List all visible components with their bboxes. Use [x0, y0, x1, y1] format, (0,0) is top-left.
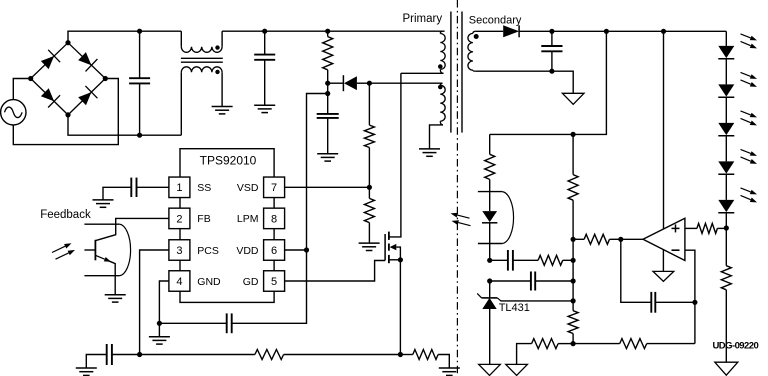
opto U2 LED body top stub: [478, 191, 502, 193]
svg-text:6: 6: [271, 245, 277, 257]
capacitor C2 bulk: [254, 29, 275, 106]
T1 secondary phase dot: [474, 34, 479, 39]
capacitor C10 integrator: [621, 239, 698, 312]
svg-text:3: 3: [176, 245, 182, 257]
resistor R11 inverting network: [573, 339, 695, 349]
resistor R4 PCS filter: [255, 350, 401, 360]
ground opto emitter: [105, 295, 126, 302]
svg-text:LPM: LPM: [237, 213, 259, 225]
resistor R9 divider lower: [568, 301, 578, 346]
svg-text:VDD: VDD: [236, 245, 259, 257]
resistor R3 VSD lower: [364, 185, 374, 243]
capacitor C4 VDD: [317, 83, 339, 154]
transformer T1 aux winding: [369, 83, 445, 149]
inductor L1 common-mode choke top winding: [181, 31, 222, 52]
inductor L1 core: [181, 58, 223, 62]
transformer T1 primary winding: [401, 31, 445, 73]
opto body bottom stub: [84, 275, 119, 277]
U1 pin 3 box: [169, 240, 190, 261]
diode bridge D1 lower-right: [68, 79, 105, 115]
U3 plus input marker: [672, 224, 680, 232]
LED D6: [718, 123, 734, 161]
label UDG-09220: [713, 340, 759, 351]
svg-text:UDG-09220: UDG-09220: [713, 340, 759, 351]
ground choke return: [212, 107, 233, 114]
wire top rail choke to transformer: [222, 30, 445, 32]
diode D2 output rectifier: [475, 25, 552, 37]
T1 aux phase dot: [438, 85, 443, 90]
diode bridge D1 upper-left: [31, 43, 68, 79]
ground C5: [93, 200, 114, 207]
wire PCS pin3: [137, 250, 169, 357]
light arrows into U2: [52, 243, 75, 259]
label Secondary: [469, 14, 522, 26]
U2 collector to FB pin2: [96, 218, 169, 240]
ground U1 GND: [149, 337, 170, 344]
label Feedback: [40, 209, 91, 221]
wire secondary output rail: [552, 29, 726, 34]
transformer T1 secondary winding: [468, 31, 475, 71]
node VDD supply junction: [325, 91, 330, 96]
node opto cathode: [487, 258, 492, 263]
svg-text:Primary: Primary: [403, 13, 443, 25]
U3 minus input marker: [672, 249, 680, 251]
label TL431: [499, 302, 530, 314]
svg-text:2: 2: [176, 213, 182, 225]
wire feedback bottom row: [694, 302, 696, 343]
wire VSD pin7: [285, 186, 370, 188]
resistor R12 to ground: [517, 339, 574, 365]
Q1 drain lead: [389, 73, 401, 237]
isolation boundary: [456, 0, 458, 376]
wire divider mid: [572, 239, 574, 301]
wire AC neutral to bridge: [13, 79, 118, 145]
ground C7: [76, 368, 97, 375]
wire bridge + output to top rail: [68, 31, 181, 43]
svg-text:7: 7: [271, 182, 277, 194]
wire VDD pin6: [285, 247, 310, 252]
resistor R14 LED current sense: [721, 228, 731, 362]
light arrows LED D7: [741, 149, 758, 164]
svg-text:PCS: PCS: [197, 245, 219, 257]
ground TL431 anode: [479, 364, 501, 375]
svg-text:TPS92010: TPS92010: [200, 153, 257, 167]
opto U2 LED body arc: [502, 192, 513, 244]
capacitor C6 VDD bypass: [159, 313, 231, 333]
svg-text:1: 1: [176, 182, 182, 194]
U1 pin 7 box: [264, 177, 285, 198]
U1 pin 4 box: [169, 271, 190, 292]
shunt regulator TL431: [477, 281, 501, 364]
svg-text:GD: GD: [243, 276, 259, 288]
node bridge vertices: [28, 40, 108, 117]
Q1 body diode arrow: [390, 244, 401, 260]
resistor R1 startup: [323, 29, 333, 84]
wire U3 inverting input: [685, 250, 695, 302]
svg-text:4: 4: [176, 276, 182, 288]
diode D3 VDD rectifier: [325, 75, 372, 91]
U3 ground lead: [662, 250, 664, 272]
capacitor C5 soft-start: [103, 178, 169, 200]
LED of optocoupler U2: [482, 211, 497, 260]
op IC U1 TPS92010 body: [180, 149, 274, 303]
capacitor C9 compensation: [490, 272, 576, 291]
wire primary return rail: [112, 354, 255, 356]
U3 supply from output rail: [663, 31, 665, 228]
ground R12: [506, 364, 528, 375]
wire feedback stub / opto body top: [84, 223, 119, 225]
U1 label TPS92010: [200, 153, 257, 167]
capacitor C3 output: [541, 29, 562, 74]
U1 pin name labels left: [197, 182, 221, 288]
LED D8: [718, 200, 734, 228]
ground secondary return: [562, 93, 584, 104]
resistor R2 VSD upper: [364, 83, 374, 187]
diode bridge D1 lower-left: [31, 79, 68, 115]
U1 pin 5 box: [264, 271, 285, 292]
wire GND pin4: [157, 281, 169, 337]
svg-text:VSD: VSD: [237, 182, 259, 194]
resistor R8 divider upper: [568, 134, 578, 239]
svg-text:TL431: TL431: [499, 302, 530, 314]
svg-text:GND: GND: [197, 276, 221, 288]
ground U3: [653, 271, 674, 281]
inductor L1 bottom winding: [181, 67, 222, 135]
T1 primary phase dot: [438, 64, 443, 69]
wire bridge - output to lower rail: [68, 115, 181, 135]
optocoupler U2 phototransistor body arc: [120, 224, 131, 276]
capacitor C1 input filter: [129, 29, 150, 138]
ground R5: [439, 368, 460, 375]
Q1 channel segments: [388, 232, 390, 264]
resistor R13 LED sense to +input: [685, 223, 729, 233]
L1 top winding phase dot: [215, 45, 219, 49]
light arrows LED D5: [741, 72, 758, 87]
label Primary: [403, 13, 443, 25]
svg-text:8: 8: [271, 213, 277, 225]
svg-text:Secondary: Secondary: [469, 14, 522, 26]
transformer T1 core: [451, 12, 462, 133]
opto U2 LED body bottom stub: [478, 243, 502, 245]
wire VDD rail: [232, 94, 328, 324]
ground C2: [254, 105, 275, 112]
U1 pin 6 box: [264, 240, 285, 261]
wire TL431 ref: [501, 298, 576, 303]
capacitor C7 line filter: [86, 344, 112, 368]
op-amp U3 triangle: [643, 218, 685, 260]
LED D4: [718, 46, 734, 85]
resistor R5 current sense: [400, 350, 449, 369]
wire GD pin5 to gate: [285, 261, 386, 282]
svg-text:5: 5: [271, 276, 277, 288]
light arrows LED D4: [741, 34, 758, 49]
light arrows from U2 LED: [451, 213, 471, 226]
node TL431 cathode: [487, 278, 492, 283]
L1 bottom winding phase dot: [215, 70, 219, 74]
resistor R6 opto bias: [485, 134, 495, 211]
light arrows LED D8: [741, 188, 758, 203]
AC source V1: [1, 100, 26, 125]
wire AC hot to bridge: [13, 79, 30, 100]
light arrows LED D6: [741, 111, 758, 126]
wire secondary return: [475, 71, 573, 93]
svg-text:SS: SS: [197, 182, 211, 194]
wire output sense drop: [490, 31, 607, 137]
ground LED sense: [715, 362, 738, 375]
U1 pin 2 box: [169, 208, 190, 229]
ground R3: [359, 243, 380, 250]
transistor Q1 MOSFET gate: [384, 234, 386, 261]
svg-text:FB: FB: [197, 213, 210, 225]
LED D5: [718, 84, 734, 123]
U1 pin name labels right: [236, 182, 259, 288]
wire LED string top: [725, 31, 727, 46]
diode bridge D1 upper-right: [68, 43, 105, 79]
svg-text:Feedback: Feedback: [40, 209, 91, 221]
LED D7: [718, 161, 734, 200]
U2 emitter: [96, 255, 116, 294]
resistor R10 output to divider node: [571, 234, 621, 244]
ground aux winding: [419, 149, 440, 156]
U2 phototransistor base: [84, 240, 95, 260]
U1 pin 8 box: [264, 208, 285, 229]
ground C4: [317, 154, 338, 161]
Q1 source lead: [389, 257, 403, 357]
U1 pin 1 box: [169, 177, 190, 198]
wire U3 output: [618, 237, 643, 242]
capacitor C8 + resistor R7 series compensation: [490, 250, 576, 271]
